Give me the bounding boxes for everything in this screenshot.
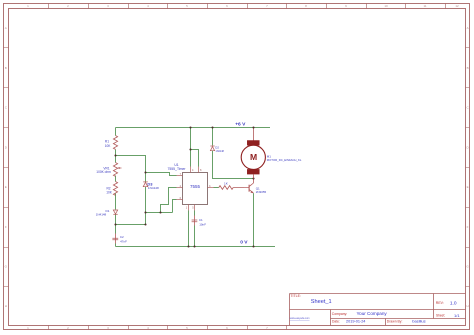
node junction above D3: [144, 171, 146, 173]
pin 5 stub: [194, 205, 196, 211]
node junction rail D2: [211, 126, 213, 128]
svg-text:12: 12: [455, 4, 459, 8]
node junction collector: [252, 177, 254, 179]
wire left column segments: [115, 128, 117, 247]
svg-text:+6 V: +6 V: [235, 122, 246, 128]
wire +6V top rail: [116, 127, 271, 129]
wire C1 to 0V: [194, 226, 196, 247]
pin 4 stub: [190, 167, 192, 173]
svg-text:B: B: [467, 66, 469, 70]
frame column ticks bottom: [49, 326, 287, 330]
svg-text:47nF: 47nF: [120, 239, 127, 243]
svg-text:M: M: [250, 152, 257, 162]
svg-text:10K: 10K: [105, 144, 112, 148]
svg-text:H: H: [5, 304, 7, 308]
svg-text:REV:: REV:: [436, 301, 444, 305]
title block border: [290, 294, 466, 326]
svg-text:TITLE:: TITLE:: [290, 294, 301, 298]
svg-text:10K: 10K: [106, 191, 113, 195]
wire pin1 to 0V: [188, 211, 190, 247]
wire pin3 to R4: [214, 187, 219, 189]
wire pin8 to pin4: [191, 150, 199, 167]
svg-text:10: 10: [384, 4, 388, 8]
op-amp U1 7555 timer body: [183, 173, 208, 205]
svg-text:Drawn By:: Drawn By:: [387, 319, 403, 323]
svg-text:H: H: [467, 304, 469, 308]
svg-text:Date:: Date:: [332, 319, 340, 323]
resistor R1: [113, 136, 117, 150]
svg-text:A: A: [5, 26, 7, 30]
svg-text:Your Company: Your Company: [357, 311, 388, 316]
svg-text:10nF: 10nF: [199, 222, 206, 226]
svg-text:1.0: 1.0: [450, 300, 457, 306]
wire pins2-6 tie to D3 column: [146, 212, 173, 214]
capacitor C2: [112, 238, 118, 240]
wire pin4 to +6V rail: [190, 128, 192, 167]
svg-text:A: A: [467, 26, 469, 30]
wire D3 column segments: [116, 173, 146, 225]
wire pin7 branch: [146, 173, 177, 176]
diode D3: [143, 182, 148, 187]
resistor R4: [219, 186, 233, 190]
potentiometer VR1: [113, 163, 121, 177]
pin 8 stub: [198, 167, 200, 173]
wire D2 branch from rail: [212, 128, 214, 146]
frame row ticks right: [466, 48, 470, 287]
resistor R2: [113, 182, 117, 196]
wire R4 to base: [233, 187, 244, 189]
wire pin6 branch: [173, 200, 177, 213]
node junction pin8 tie: [189, 148, 191, 150]
svg-text:Sheet_1: Sheet_1: [311, 299, 332, 305]
wire emitter to 0V: [253, 193, 255, 246]
capacitor C1: [192, 220, 198, 222]
pin 7 stub: [177, 175, 183, 177]
svg-text:B: B: [5, 66, 7, 70]
transistor Q1 2N3055: [244, 179, 254, 194]
wire R1 bottom to D3 column: [116, 156, 146, 173]
pin 3 stub: [208, 187, 214, 189]
node junction pin5 rail: [193, 245, 195, 247]
svg-text:1N4148: 1N4148: [96, 213, 107, 217]
svg-text:2N3055: 2N3055: [256, 190, 267, 194]
svg-text:E: E: [467, 185, 469, 189]
diode D2: [210, 146, 214, 151]
frame row ticks left: [4, 48, 9, 287]
pin 2 stub: [177, 187, 183, 189]
pin 1 stub: [188, 205, 190, 211]
svg-text:2019-01-24: 2019-01-24: [346, 319, 365, 323]
motor M1: [241, 128, 265, 179]
wire pin5 above C1: [194, 211, 196, 216]
capacitor C1 pins: [194, 216, 196, 226]
node junction D1/C2 rail: [114, 223, 116, 225]
wire pin2 branch: [161, 188, 177, 213]
diode D1: [113, 210, 117, 214]
svg-text:F: F: [5, 225, 7, 229]
svg-text:7555_Timer: 7555_Timer: [168, 167, 187, 171]
svg-text:Company:: Company:: [332, 312, 348, 316]
frame column ticks top: [49, 4, 446, 9]
svg-text:1N4148: 1N4148: [216, 150, 225, 153]
svg-text:7555: 7555: [190, 184, 201, 189]
svg-text:basilius: basilius: [412, 319, 425, 324]
svg-text:1/1: 1/1: [454, 313, 460, 318]
node junction pin2 drop y212: [159, 211, 161, 213]
svg-text:F: F: [467, 225, 469, 229]
wire 0V bottom rail: [116, 246, 276, 248]
node junction corner y224: [144, 223, 146, 225]
node junction pin1 rail: [187, 245, 189, 247]
svg-text:MOTOR_DC_EINFACH_KL: MOTOR_DC_EINFACH_KL: [267, 158, 302, 162]
svg-text:www.easyeda.com: www.easyeda.com: [290, 317, 310, 320]
svg-text:Sheet:: Sheet:: [436, 314, 445, 318]
svg-text:R1: R1: [105, 139, 109, 143]
node junction emitter rail: [252, 245, 254, 247]
svg-text:100K ohm: 100K ohm: [96, 170, 111, 174]
svg-text:11: 11: [423, 4, 426, 8]
pin 6 stub: [177, 199, 183, 201]
node junction R1/VR1: [114, 154, 116, 156]
node junction rail motor: [252, 126, 254, 128]
node junction D3 column y212: [144, 211, 146, 213]
node junction rail pin4: [189, 126, 191, 128]
capacitor C2 pins: [115, 234, 117, 244]
wire D2 to collector node: [213, 151, 254, 179]
svg-text:D2: D2: [215, 146, 219, 150]
svg-text:0 V: 0 V: [240, 240, 248, 246]
svg-text:E: E: [5, 185, 7, 189]
svg-text:1N4148: 1N4148: [148, 186, 159, 190]
